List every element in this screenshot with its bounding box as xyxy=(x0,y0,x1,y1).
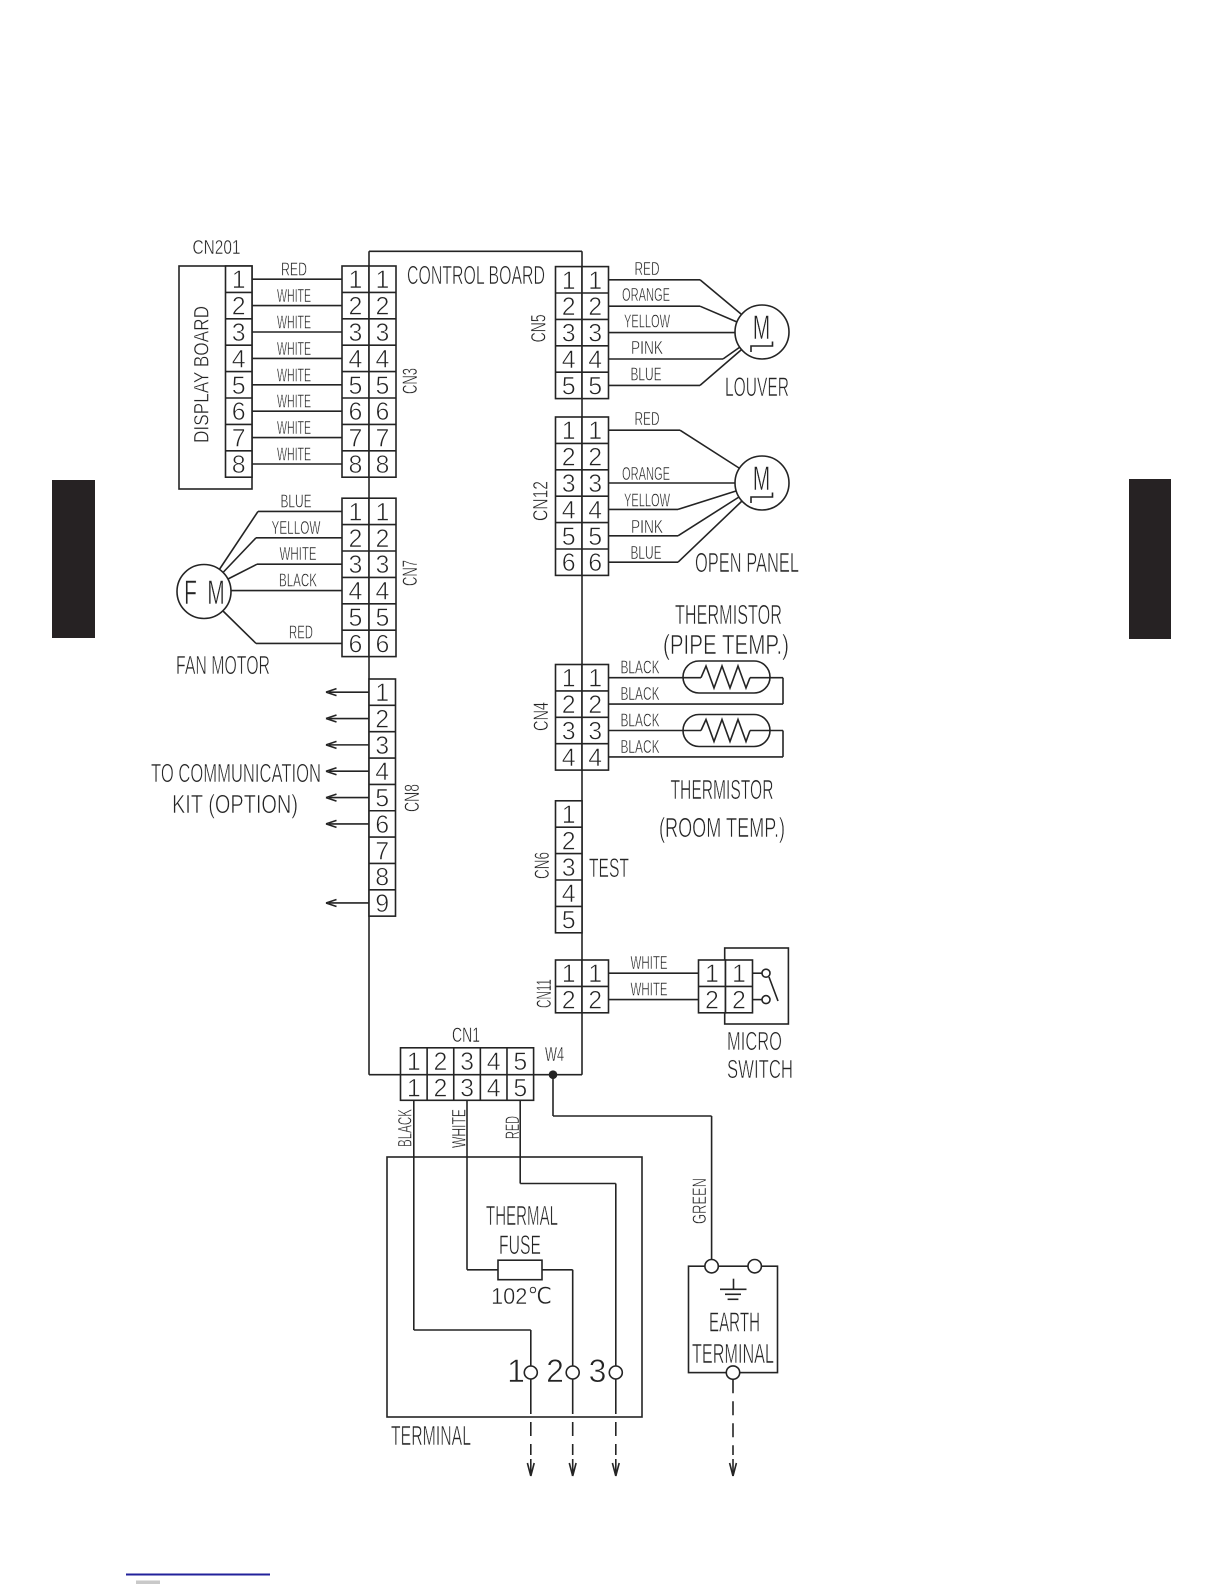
svg-text:WHITE: WHITE xyxy=(277,339,311,359)
svg-text:THERMISTOR: THERMISTOR xyxy=(675,599,782,630)
wire CN7.3 WHITE to fan motor xyxy=(257,563,342,565)
connector CN1 (2x5 pins) xyxy=(401,1048,534,1101)
svg-text:CONTROL BOARD: CONTROL BOARD xyxy=(407,260,545,290)
wire CN11.1 WHITE to micro switch xyxy=(609,972,699,974)
svg-text:M: M xyxy=(753,460,771,498)
svg-text:WHITE: WHITE xyxy=(277,313,311,333)
svg-text:TERMINAL: TERMINAL xyxy=(692,1338,774,1369)
svg-text:BLACK: BLACK xyxy=(621,737,660,757)
earth terminal box xyxy=(689,1266,778,1372)
micro switch connector (2+2 pins) xyxy=(699,960,726,1013)
wire/arrow CN8.4 to communication kit xyxy=(329,770,369,772)
svg-text:4: 4 xyxy=(349,345,363,373)
svg-text:3: 3 xyxy=(349,319,363,347)
svg-text:2: 2 xyxy=(349,293,363,321)
micro switch lever xyxy=(769,977,778,1001)
svg-text:MICRO: MICRO xyxy=(727,1026,782,1056)
svg-text:CN5: CN5 xyxy=(527,314,550,342)
svg-text:6: 6 xyxy=(375,811,389,839)
wire CN12.1 RED to open panel motor xyxy=(609,429,681,431)
svg-text:THERMAL: THERMAL xyxy=(486,1200,558,1231)
svg-text:4: 4 xyxy=(562,880,576,908)
svg-text:4: 4 xyxy=(487,1074,501,1102)
svg-text:WHITE: WHITE xyxy=(277,392,311,412)
wire CN7.1 BLUE to fan motor xyxy=(258,510,342,512)
control board outline (top edge) xyxy=(369,250,582,252)
wire control board left edge to CN1 xyxy=(369,1074,401,1076)
svg-text:W4: W4 xyxy=(545,1044,564,1066)
svg-text:8: 8 xyxy=(349,451,363,479)
dashed lead with arrow (terminal) xyxy=(572,1400,574,1455)
wire CN11.2 WHITE to micro switch xyxy=(609,999,699,1001)
svg-text:2: 2 xyxy=(433,1048,447,1076)
wire/arrow CN8.3 to communication kit xyxy=(329,744,369,746)
wire CN1.1 BLACK down to terminal 1 xyxy=(413,1100,415,1330)
svg-text:RED: RED xyxy=(503,1116,524,1139)
micro switch outer box xyxy=(725,948,789,1024)
svg-text:4: 4 xyxy=(375,758,389,786)
svg-text:WHITE: WHITE xyxy=(277,445,311,465)
svg-text:(PIPE TEMP.): (PIPE TEMP.) xyxy=(663,629,789,660)
wire CN5.5 BLUE to louver motor xyxy=(609,384,701,386)
svg-text:7: 7 xyxy=(349,425,363,453)
svg-text:WHITE: WHITE xyxy=(631,953,668,973)
svg-text:2: 2 xyxy=(546,1353,564,1389)
svg-text:BLACK: BLACK xyxy=(279,571,317,591)
svg-text:TO COMMUNICATION: TO COMMUNICATION xyxy=(151,758,321,788)
svg-text:2: 2 xyxy=(562,293,576,321)
svg-text:1: 1 xyxy=(562,665,576,693)
thermistor RT1 (pipe temp.) body xyxy=(683,661,770,693)
svg-text:3: 3 xyxy=(349,551,363,579)
wire CN1 to W4 node xyxy=(534,1074,582,1076)
svg-text:CN11: CN11 xyxy=(533,979,556,1008)
wire CN201.8 to CN3.8 xyxy=(252,463,342,465)
earth terminal bottom circle xyxy=(726,1366,739,1379)
svg-text:BLACK: BLACK xyxy=(621,684,660,704)
motor M2 underline mark xyxy=(751,493,773,504)
connector CN8 (9 pins) xyxy=(369,679,396,916)
svg-text:FUSE: FUSE xyxy=(499,1230,541,1260)
svg-text:5: 5 xyxy=(375,785,389,813)
svg-text:2: 2 xyxy=(562,987,576,1015)
svg-text:THERMISTOR: THERMISTOR xyxy=(671,774,774,805)
svg-text:7: 7 xyxy=(375,837,389,865)
wire CN1.3 WHITE down to thermal fuse xyxy=(466,1100,468,1270)
wire W4 to earth terminal (GREEN) xyxy=(552,1075,554,1116)
svg-text:YELLOW: YELLOW xyxy=(624,490,670,510)
connector CN11 (2+2 pins) xyxy=(556,960,583,1013)
terminal 1 circle xyxy=(524,1366,537,1379)
svg-text:2: 2 xyxy=(232,293,246,321)
wire/arrow CN8.6 to communication kit xyxy=(329,823,369,825)
svg-text:3: 3 xyxy=(376,319,390,347)
svg-text:CN3: CN3 xyxy=(399,368,422,394)
svg-text:6: 6 xyxy=(588,549,602,577)
micro switch contact wire pin2 xyxy=(753,999,763,1001)
faint footer text remnant xyxy=(136,1581,160,1584)
svg-text:WHITE: WHITE xyxy=(277,286,311,306)
svg-text:5: 5 xyxy=(513,1074,527,1102)
svg-text:2: 2 xyxy=(705,987,719,1015)
svg-text:1: 1 xyxy=(732,960,746,988)
terminal 3 circle xyxy=(609,1366,622,1379)
connector CN6 (5 pins) xyxy=(556,801,583,933)
connector CN7 (6+6 pins) xyxy=(342,498,369,656)
svg-text:WHITE: WHITE xyxy=(631,980,668,1000)
svg-text:1: 1 xyxy=(407,1048,421,1076)
wire CN4.1 BLACK to pipe thermistor xyxy=(609,677,702,679)
svg-text:3: 3 xyxy=(588,470,602,498)
terminal 2 circle xyxy=(566,1366,579,1379)
svg-text:3: 3 xyxy=(562,854,576,882)
svg-text:2: 2 xyxy=(376,525,390,553)
wire/arrow CN8.5 to communication kit xyxy=(329,797,369,799)
svg-text:1: 1 xyxy=(705,960,719,988)
svg-text:OPEN PANEL: OPEN PANEL xyxy=(695,547,799,578)
dashed lead with arrow (earth terminal) xyxy=(732,1379,734,1455)
control board outline (right edge) xyxy=(581,251,583,1074)
svg-text:1: 1 xyxy=(507,1353,525,1389)
svg-text:GREEN: GREEN xyxy=(690,1178,711,1224)
svg-text:5: 5 xyxy=(376,604,390,632)
svg-text:6: 6 xyxy=(376,630,390,658)
svg-text:2: 2 xyxy=(349,525,363,553)
svg-text:3: 3 xyxy=(376,551,390,579)
svg-text:7: 7 xyxy=(376,425,390,453)
svg-text:8: 8 xyxy=(232,451,246,479)
svg-text:5: 5 xyxy=(562,907,576,935)
wire CN201.3 to CN3.3 xyxy=(252,331,342,333)
wire CN5.4 PINK to louver motor xyxy=(609,358,724,360)
wire CN5.1 RED to louver motor xyxy=(609,279,701,281)
thermal fuse body xyxy=(498,1260,542,1280)
svg-text:WHITE: WHITE xyxy=(277,365,311,385)
svg-text:3: 3 xyxy=(460,1074,474,1102)
svg-text:2: 2 xyxy=(433,1074,447,1102)
wire CN7.2 YELLOW to fan motor xyxy=(256,537,342,539)
dashed lead with arrow (terminal) xyxy=(615,1400,617,1455)
connector CN3 (8+8 pins) xyxy=(342,266,369,477)
wire thermal fuse to terminal 2 xyxy=(542,1269,573,1271)
wire CN201.4 to CN3.4 xyxy=(252,357,342,359)
svg-text:DISPLAY BOARD: DISPLAY BOARD xyxy=(191,306,214,443)
svg-text:6: 6 xyxy=(349,398,363,426)
svg-text:M: M xyxy=(207,574,225,612)
svg-text:LOUVER: LOUVER xyxy=(725,372,789,402)
connector CN201 (8 pins) xyxy=(226,266,253,477)
svg-text:TEST: TEST xyxy=(589,853,629,883)
svg-text:2: 2 xyxy=(562,444,576,472)
svg-text:RED: RED xyxy=(635,259,660,279)
svg-text:5: 5 xyxy=(349,604,363,632)
svg-text:BLACK: BLACK xyxy=(621,711,660,731)
svg-text:RED: RED xyxy=(635,409,660,429)
svg-text:1: 1 xyxy=(562,801,576,829)
svg-text:(ROOM TEMP.): (ROOM TEMP.) xyxy=(659,812,785,843)
wire CN4.3 BLACK to room thermistor xyxy=(609,730,702,732)
dashed lead with arrow (terminal) xyxy=(530,1400,532,1455)
svg-text:6: 6 xyxy=(562,549,576,577)
svg-text:BLUE: BLUE xyxy=(281,491,312,511)
svg-text:4: 4 xyxy=(562,744,576,772)
right black sidebar bar xyxy=(1129,479,1171,639)
svg-text:BLACK: BLACK xyxy=(621,658,660,678)
svg-text:4: 4 xyxy=(349,578,363,606)
svg-text:1: 1 xyxy=(562,960,576,988)
wire/arrow CN8.2 to communication kit xyxy=(329,718,369,720)
svg-text:1: 1 xyxy=(588,665,602,693)
svg-text:9: 9 xyxy=(375,890,389,918)
svg-text:6: 6 xyxy=(232,398,246,426)
svg-text:1: 1 xyxy=(375,679,389,707)
svg-text:F: F xyxy=(184,574,197,612)
connector CN12 (6+6 pins) xyxy=(556,417,583,575)
svg-text:2: 2 xyxy=(562,827,576,855)
wire CN12.3 ORANGE to open panel motor xyxy=(609,482,736,484)
connector CN5 (5+5 pins) xyxy=(556,267,583,399)
wire CN7.4 BLACK to fan motor xyxy=(231,590,342,592)
svg-text:ORANGE: ORANGE xyxy=(622,464,670,484)
thermistor RT2 zigzag element xyxy=(701,720,750,742)
svg-text:6: 6 xyxy=(376,398,390,426)
svg-text:4: 4 xyxy=(487,1048,501,1076)
svg-text:FAN MOTOR: FAN MOTOR xyxy=(176,650,270,680)
svg-text:2: 2 xyxy=(732,987,746,1015)
svg-text:3: 3 xyxy=(588,718,602,746)
earth ground symbol xyxy=(733,1279,735,1290)
wire CN7.6 RED to fan motor xyxy=(256,642,342,644)
svg-text:WHITE: WHITE xyxy=(450,1109,471,1148)
wire CN12.6 BLUE to open panel motor xyxy=(609,561,679,563)
svg-text:3: 3 xyxy=(460,1048,474,1076)
motor M1 underline mark xyxy=(751,342,773,353)
svg-text:3: 3 xyxy=(232,319,246,347)
micro switch contact circle 1 xyxy=(762,969,770,977)
svg-text:5: 5 xyxy=(588,372,602,400)
svg-text:5: 5 xyxy=(513,1048,527,1076)
svg-text:5: 5 xyxy=(232,372,246,400)
svg-text:ORANGE: ORANGE xyxy=(622,285,670,305)
svg-text:1: 1 xyxy=(349,498,363,526)
svg-text:BLUE: BLUE xyxy=(631,543,662,563)
svg-text:4: 4 xyxy=(588,346,602,374)
svg-text:YELLOW: YELLOW xyxy=(624,312,670,332)
svg-text:CN8: CN8 xyxy=(401,784,424,812)
thermistor RT1 zigzag element xyxy=(701,666,750,688)
svg-text:2: 2 xyxy=(588,293,602,321)
wire CN5.3 YELLOW to louver motor xyxy=(609,332,736,334)
svg-text:YELLOW: YELLOW xyxy=(272,518,321,538)
svg-text:5: 5 xyxy=(349,372,363,400)
svg-text:PINK: PINK xyxy=(631,338,663,358)
wire/arrow CN8.9 to communication kit xyxy=(329,902,369,904)
display board outer box xyxy=(179,266,252,489)
svg-text:5: 5 xyxy=(562,372,576,400)
svg-text:1: 1 xyxy=(376,498,390,526)
svg-text:RED: RED xyxy=(281,260,307,280)
wire CN201.2 to CN3.2 xyxy=(252,305,342,307)
svg-text:CN7: CN7 xyxy=(399,560,422,586)
node W4 (junction dot) xyxy=(549,1070,558,1079)
svg-text:2: 2 xyxy=(588,444,602,472)
motor M1 louver (circle) xyxy=(735,305,789,359)
wire CN12.4 YELLOW to open panel motor xyxy=(609,508,679,510)
wire CN4.4 BLACK return from room thermistor xyxy=(750,730,783,732)
svg-text:2: 2 xyxy=(588,987,602,1015)
wire CN12.5 PINK to open panel motor xyxy=(609,535,679,537)
blue footer rule xyxy=(126,1574,270,1576)
svg-text:2: 2 xyxy=(375,706,389,734)
svg-text:3: 3 xyxy=(588,320,602,348)
svg-text:5: 5 xyxy=(376,372,390,400)
svg-text:4: 4 xyxy=(232,345,246,373)
svg-text:4: 4 xyxy=(562,496,576,524)
wire/arrow CN8.1 to communication kit xyxy=(329,691,369,693)
svg-text:WHITE: WHITE xyxy=(277,418,311,438)
svg-text:SWITCH: SWITCH xyxy=(727,1054,793,1084)
svg-text:CN6: CN6 xyxy=(531,852,554,879)
svg-text:4: 4 xyxy=(588,744,602,772)
micro switch contact circle 2 xyxy=(762,996,770,1004)
svg-text:2: 2 xyxy=(562,691,576,719)
svg-text:CN12: CN12 xyxy=(530,481,553,521)
svg-text:PINK: PINK xyxy=(631,517,663,537)
svg-text:BLUE: BLUE xyxy=(631,364,662,384)
svg-text:TERMINAL: TERMINAL xyxy=(391,1420,471,1451)
svg-text:M: M xyxy=(753,309,771,347)
svg-text:4: 4 xyxy=(562,346,576,374)
svg-text:1: 1 xyxy=(588,960,602,988)
svg-text:8: 8 xyxy=(375,864,389,892)
svg-text:3: 3 xyxy=(562,470,576,498)
svg-text:3: 3 xyxy=(375,732,389,760)
wire CN201.7 to CN3.7 xyxy=(252,437,342,439)
wire CN201.6 to CN3.6 xyxy=(252,410,342,412)
svg-text:1: 1 xyxy=(562,267,576,295)
svg-text:EARTH: EARTH xyxy=(709,1307,760,1338)
wire CN1.5 RED down to terminal 3 xyxy=(519,1100,521,1183)
wire CN4.2 BLACK return from pipe thermistor xyxy=(750,677,783,679)
svg-text:4: 4 xyxy=(376,578,390,606)
svg-text:5: 5 xyxy=(562,523,576,551)
svg-text:4: 4 xyxy=(588,496,602,524)
wire CN201.1 to CN3.1 xyxy=(252,278,342,280)
svg-text:102℃: 102℃ xyxy=(491,1283,552,1309)
svg-text:1: 1 xyxy=(407,1074,421,1102)
earth terminal top-right circle xyxy=(748,1260,761,1273)
wire CN201.5 to CN3.5 xyxy=(252,384,342,386)
thermistor RT2 (room temp.) body xyxy=(683,715,770,747)
terminal block box xyxy=(387,1157,642,1417)
left black sidebar bar xyxy=(52,480,95,638)
motor M2 open panel (circle) xyxy=(735,456,789,510)
svg-text:3: 3 xyxy=(562,320,576,348)
wire CN5.2 ORANGE to louver motor xyxy=(609,305,701,307)
svg-text:CN1: CN1 xyxy=(452,1024,480,1047)
svg-text:CN4: CN4 xyxy=(530,702,553,731)
svg-text:1: 1 xyxy=(562,417,576,445)
svg-text:6: 6 xyxy=(349,630,363,658)
svg-text:1: 1 xyxy=(349,266,363,294)
svg-text:5: 5 xyxy=(588,523,602,551)
svg-text:2: 2 xyxy=(588,691,602,719)
svg-text:3: 3 xyxy=(589,1353,607,1389)
svg-text:CN201: CN201 xyxy=(193,237,241,259)
svg-text:WHITE: WHITE xyxy=(280,544,317,564)
svg-text:7: 7 xyxy=(232,425,246,453)
micro switch contact wire pin1 xyxy=(753,972,763,974)
svg-text:BLACK: BLACK xyxy=(396,1109,417,1147)
svg-text:8: 8 xyxy=(376,451,390,479)
svg-text:KIT (OPTION): KIT (OPTION) xyxy=(172,789,298,819)
svg-text:RED: RED xyxy=(289,622,313,642)
fan motor FM (circle) xyxy=(177,565,231,619)
svg-text:1: 1 xyxy=(376,266,390,294)
earth terminal top-left circle xyxy=(705,1260,718,1273)
svg-text:3: 3 xyxy=(562,718,576,746)
svg-text:2: 2 xyxy=(376,293,390,321)
connector CN4 (4+4 pins) xyxy=(556,665,583,771)
svg-text:4: 4 xyxy=(376,345,390,373)
svg-text:1: 1 xyxy=(588,267,602,295)
svg-text:1: 1 xyxy=(232,266,246,294)
svg-text:1: 1 xyxy=(588,417,602,445)
control board outline (left edge) xyxy=(368,251,370,1074)
